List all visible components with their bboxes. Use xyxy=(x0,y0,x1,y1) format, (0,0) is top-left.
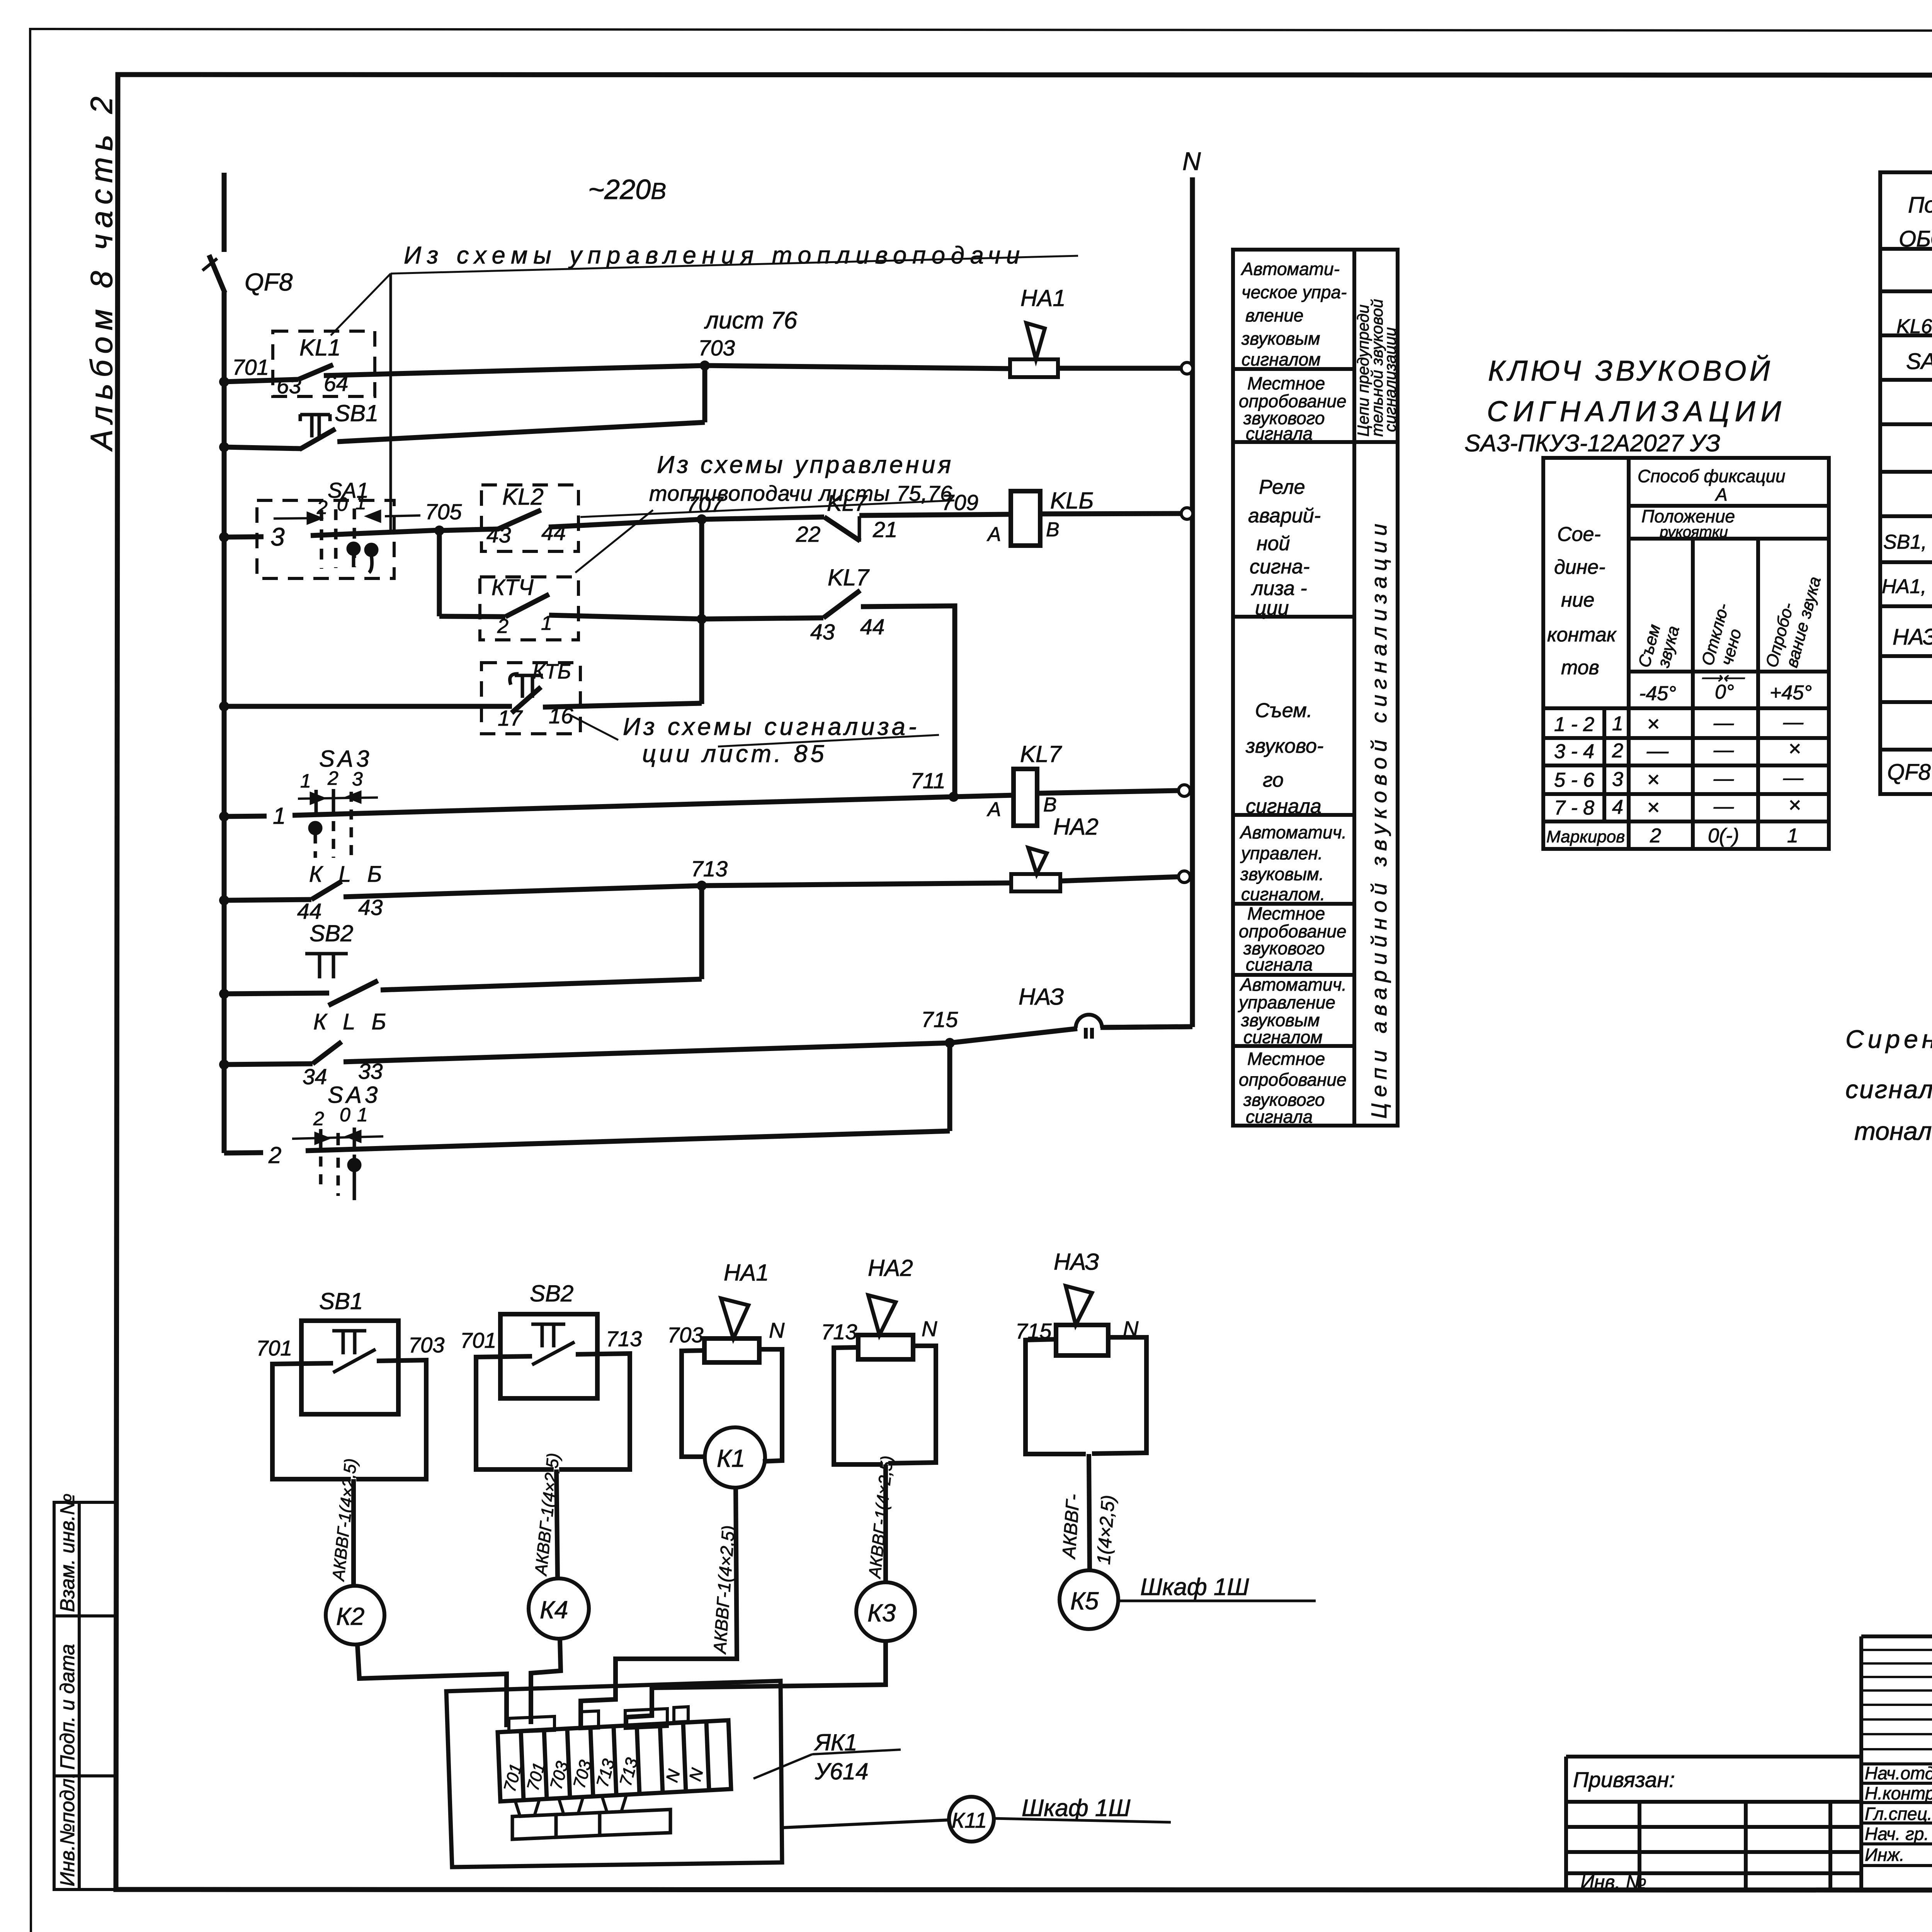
wire SA1 to node 705 xyxy=(311,530,439,536)
svg-text:3: 3 xyxy=(1612,768,1623,791)
svg-text:⟶⟵: ⟶⟵ xyxy=(1700,670,1745,687)
SB2 wire left xyxy=(476,1356,554,1469)
svg-text:Автоматич.: Автоматич. xyxy=(1239,975,1347,995)
svg-text:KL6, KL7: KL6, KL7 xyxy=(1896,315,1932,338)
svg-text:3: 3 xyxy=(352,768,363,790)
svg-text:701: 701 xyxy=(256,1336,292,1360)
svg-text:Инж.: Инж. xyxy=(1865,1845,1905,1865)
svg-text:16: 16 xyxy=(549,704,573,728)
svg-text:SA3: SA3 xyxy=(319,746,372,772)
svg-text:Цепи аварийной звуковой сигнал: Цепи аварийной звуковой сигнализации xyxy=(1367,518,1391,1119)
HA2 wire left xyxy=(834,1347,883,1464)
switch SA1 dashed verticals xyxy=(321,509,354,569)
contact KL6 44-43 blade xyxy=(311,881,342,900)
contact KT4 blade xyxy=(505,594,549,617)
attachment table columns xyxy=(1639,1802,1830,1889)
svg-text:Инв.№подл.: Инв.№подл. xyxy=(56,1773,79,1886)
svg-text:К3: К3 xyxy=(867,1599,896,1627)
svg-text:34: 34 xyxy=(303,1065,327,1089)
svg-text:2: 2 xyxy=(313,1108,324,1129)
svg-text:~220B: ~220B xyxy=(588,174,666,205)
svg-text:0: 0 xyxy=(337,493,348,515)
svg-text:К1: К1 xyxy=(717,1444,745,1472)
svg-text:HA2: HA2 xyxy=(1053,814,1099,840)
svg-text:33: 33 xyxy=(358,1059,383,1084)
parts table frame xyxy=(1880,172,1932,794)
svg-text:B: B xyxy=(1043,794,1057,816)
svg-text:Нач.отд: Нач.отд xyxy=(1865,1763,1932,1783)
svg-text:управление: управление xyxy=(1238,992,1335,1012)
svg-text:КLБ: КLБ xyxy=(309,862,398,887)
svg-text:К4: К4 xyxy=(540,1596,568,1624)
K5 line to shkaf xyxy=(1118,1600,1316,1602)
wire 707 to KL7nc xyxy=(702,517,824,519)
terminal numbers rotated xyxy=(500,1755,707,1794)
switch SA1 arrows xyxy=(274,515,420,519)
svg-text:Сирены предупредительной и: Сирены предупредительной и аварийной зву… xyxy=(1845,1025,1932,1053)
signature table thin rows xyxy=(1861,1650,1932,1749)
svg-text:сигнала: сигнала xyxy=(1246,1107,1313,1127)
svg-text:21: 21 xyxy=(872,517,897,542)
svg-text:1: 1 xyxy=(273,803,286,829)
HA3 cable down xyxy=(1089,1454,1090,1571)
wire KTB branch left xyxy=(224,704,512,709)
svg-text:Шкаф 1Ш: Шкаф 1Ш xyxy=(1140,1574,1249,1600)
svg-text:44: 44 xyxy=(860,615,884,639)
svg-text:А: А xyxy=(1714,485,1728,505)
svg-text:сигналом: сигналом xyxy=(1242,349,1321,369)
svg-text:Взам. инв.№: Взам. инв.№ xyxy=(56,1493,79,1612)
svg-text:Н.контр.: Н.контр. xyxy=(1865,1783,1932,1803)
svg-text:ции лист. 85: ции лист. 85 xyxy=(642,740,827,767)
svg-text:НА2: НА2 xyxy=(868,1255,913,1281)
svg-text:Гл.спец.: Гл.спец. xyxy=(1865,1804,1932,1824)
contact KTB blade xyxy=(512,687,541,713)
N bus corner to HA3 xyxy=(1100,1027,1192,1027)
kabel K2 circle xyxy=(326,1586,384,1645)
wire to node 713 xyxy=(344,886,702,897)
svg-text:лиза -: лиза - xyxy=(1251,577,1307,600)
svg-text:КLБ: КLБ xyxy=(313,1009,402,1034)
switch SA3-2 arrowheads xyxy=(316,1132,360,1143)
function table frame xyxy=(1233,250,1398,1126)
svg-text:—: — xyxy=(1783,711,1804,733)
svg-text:SB2: SB2 xyxy=(530,1281,573,1306)
switch SA3-2 arrows xyxy=(292,1136,383,1139)
svg-text:Автомати-: Автомати- xyxy=(1240,259,1340,279)
wire 21 to 709 coil xyxy=(859,514,1011,515)
N bus connection circles xyxy=(1179,362,1193,883)
svg-text:64: 64 xyxy=(324,371,348,396)
parts table horizontals xyxy=(1880,247,1932,251)
SB2 cable down xyxy=(556,1469,558,1578)
svg-text:дине-: дине- xyxy=(1554,556,1605,578)
svg-text:тов: тов xyxy=(1561,656,1599,679)
svg-text:SB1, SB2: SB1, SB2 xyxy=(1883,531,1932,553)
svg-text:KLБ: KLБ xyxy=(1050,488,1094,514)
SB2 actuator xyxy=(531,1324,565,1347)
N circle HA2 xyxy=(1179,871,1190,883)
SB1 contact blade xyxy=(333,1349,376,1372)
YAK1 underline xyxy=(812,1750,901,1754)
switch SA3-1 arrowheads xyxy=(311,793,360,803)
wire SB1 branch left xyxy=(224,447,301,449)
svg-text:QF8: QF8 xyxy=(1887,760,1931,785)
svg-text:го: го xyxy=(1263,769,1284,791)
contact KL2 blade xyxy=(498,510,541,529)
svg-text:HA1: HA1 xyxy=(1020,285,1066,311)
svg-text:713: 713 xyxy=(821,1320,857,1344)
svg-text:звуковым: звуковым xyxy=(1241,328,1320,349)
K11 line to shkaf xyxy=(994,1818,1171,1822)
svg-text:Привязан:: Привязан: xyxy=(1573,1767,1675,1792)
coil KL6 rect xyxy=(1011,491,1040,546)
wire 3/SA1 branch xyxy=(224,537,264,537)
YAK1 callout diagonal xyxy=(753,1754,812,1779)
svg-text:Автоматич.: Автоматич. xyxy=(1239,822,1347,842)
switch SA3-1 arrows xyxy=(298,798,378,799)
clamp 1 xyxy=(515,1799,539,1816)
svg-text:B: B xyxy=(1046,519,1060,541)
SB1 wire left xyxy=(272,1363,351,1479)
svg-text:Сое-: Сое- xyxy=(1557,523,1601,546)
svg-text:Альбом 8 часть 2: Альбом 8 часть 2 xyxy=(84,90,119,452)
relay KL2 dashed box xyxy=(481,485,578,551)
node SB2 xyxy=(219,989,229,999)
K3 wire to terminal N xyxy=(626,1641,886,1725)
svg-text:715: 715 xyxy=(921,1007,958,1032)
contact KL1 blade xyxy=(298,365,333,379)
svg-text:703: 703 xyxy=(698,336,735,361)
svg-text:сигнала: сигнала xyxy=(1246,954,1313,975)
svg-text:0(-): 0(-) xyxy=(1708,825,1739,847)
svg-text:7 - 8: 7 - 8 xyxy=(1554,797,1594,819)
svg-text:ние: ние xyxy=(1561,589,1594,611)
svg-text:Местное: Местное xyxy=(1247,1049,1325,1069)
svg-text:Маркиров: Маркиров xyxy=(1546,827,1625,846)
contact KL7 22-21 stop tick xyxy=(858,516,861,542)
svg-text:3 - 4: 3 - 4 xyxy=(1554,740,1594,763)
svg-text:1: 1 xyxy=(357,1104,368,1126)
SB1 wire right xyxy=(356,1360,426,1479)
HA2 cable down xyxy=(883,1464,888,1583)
svg-text:К5: К5 xyxy=(1070,1587,1099,1615)
callout 1 из схемы управления лист 76 xyxy=(331,242,1078,532)
callout 3 из схемы сигнализации лист 85 xyxy=(571,713,939,767)
svg-text:К11: К11 xyxy=(952,1808,987,1832)
svg-text:44: 44 xyxy=(541,520,566,545)
svg-text:Нач. гр.: Нач. гр. xyxy=(1865,1824,1929,1844)
svg-text:КЛЮЧ ЗВУКОВОЙ: КЛЮЧ ЗВУКОВОЙ xyxy=(1488,355,1773,387)
svg-text:22: 22 xyxy=(796,522,820,547)
node 1 xyxy=(219,811,229,821)
signature table frame xyxy=(1861,1636,1932,1889)
svg-text:КТЧ: КТЧ xyxy=(492,575,534,600)
svg-text:KL7: KL7 xyxy=(828,565,870,590)
svg-text:17: 17 xyxy=(498,706,523,731)
svg-text:контак: контак xyxy=(1547,624,1617,646)
svg-text:ной: ной xyxy=(1257,532,1290,555)
svg-text:тональность.: тональность. xyxy=(1854,1117,1932,1145)
svg-text:4: 4 xyxy=(1612,796,1623,818)
wire 705 to KL2 xyxy=(439,529,499,531)
wire HA1 to N xyxy=(1058,366,1182,371)
svg-text:A: A xyxy=(986,798,1001,821)
kabel K1 circle xyxy=(705,1427,765,1488)
svg-text:—: — xyxy=(1646,738,1669,763)
svg-text:SA3: SA3 xyxy=(328,1082,381,1108)
siren HA1 xyxy=(1010,323,1058,377)
svg-text:звуковым.: звуковым. xyxy=(1240,864,1324,884)
switch SA1 arrowheads xyxy=(308,512,379,522)
wire HA3 to N corner xyxy=(1100,1027,1192,1027)
junction dots xyxy=(219,361,959,1070)
clamp 3 xyxy=(602,1795,626,1812)
svg-text:лист 76: лист 76 xyxy=(704,307,798,334)
node 715 xyxy=(945,1038,955,1048)
K4 wire to terminal 701b xyxy=(531,1639,561,1724)
attachment table rows xyxy=(1566,1827,1861,1873)
jumper box 713 xyxy=(625,1709,667,1728)
wire SA3 to node 711 xyxy=(293,797,954,815)
svg-text:СИГНАЛИЗАЦИИ: СИГНАЛИЗАЦИИ xyxy=(1487,395,1787,427)
wire vertical 713 down xyxy=(699,886,704,979)
schematic labels xyxy=(232,147,1201,1168)
pushbutton SB1 actuator xyxy=(300,414,330,437)
clamp box 2 xyxy=(556,1813,600,1837)
svg-text:713: 713 xyxy=(691,857,728,881)
svg-text:рукоятки: рукоятки xyxy=(1659,524,1728,541)
key table horizontals xyxy=(1629,504,1829,508)
N bus vertical xyxy=(1190,177,1195,1027)
svg-text:2: 2 xyxy=(1612,740,1623,762)
wire KL6 44-43 branch xyxy=(224,900,311,900)
svg-text:сигна-: сигна- xyxy=(1250,556,1310,578)
wire junction to KL7no xyxy=(702,618,823,619)
N circle KL6 coil xyxy=(1181,508,1193,519)
jumper box 701 xyxy=(509,1716,554,1732)
callout 2 из схемы управления листы 75,76 xyxy=(575,451,954,573)
svg-text:опробование: опробование xyxy=(1239,1070,1347,1090)
coil KL7 rect xyxy=(1014,769,1037,826)
switch SA3-1 dashed third xyxy=(333,792,351,858)
wire 44 corner xyxy=(861,606,955,797)
signature table name rows xyxy=(1861,1764,1932,1866)
wire vertical 707 down to KTB xyxy=(699,519,704,704)
svg-text:Реле: Реле xyxy=(1259,476,1305,498)
clamp box 3 xyxy=(600,1810,670,1835)
svg-text:711: 711 xyxy=(910,769,946,793)
svg-text:Шкаф 1Ш: Шкаф 1Ш xyxy=(1022,1795,1131,1821)
svg-text:1: 1 xyxy=(1787,825,1798,847)
svg-text:SB2: SB2 xyxy=(310,920,353,946)
clamp 2 xyxy=(559,1797,583,1815)
pushbutton SB1 blade xyxy=(299,429,335,449)
wire KL6 34-33 branch xyxy=(224,1064,313,1065)
HA3 horn xyxy=(1066,1286,1092,1325)
attachment table frame xyxy=(1566,1757,1861,1889)
relay KL1 dashed box xyxy=(273,331,375,396)
svg-text:N: N xyxy=(1182,147,1201,175)
svg-text:сигнализации: сигнализации xyxy=(1381,327,1399,432)
svg-text:715: 715 xyxy=(1015,1319,1052,1343)
pushbutton SB2 blade xyxy=(328,981,378,1005)
HA1 horn xyxy=(721,1298,748,1338)
svg-text:НАЗ: НАЗ xyxy=(1019,984,1064,1010)
HA2 wire right xyxy=(888,1346,936,1463)
svg-text:×: × xyxy=(1788,793,1801,817)
svg-text:705: 705 xyxy=(425,500,462,524)
SB1 actuator xyxy=(332,1331,366,1354)
siren HA2 xyxy=(1011,848,1060,891)
svg-text:НАЗ: НАЗ xyxy=(1893,624,1932,650)
node KL6-44 xyxy=(219,895,229,905)
contact KL6 34-33 blade xyxy=(313,1042,342,1064)
svg-text:SB1: SB1 xyxy=(319,1288,363,1314)
svg-text:×: × xyxy=(1647,711,1660,736)
SB2 contact blade xyxy=(532,1342,575,1365)
K circle labels xyxy=(336,1444,1099,1832)
pushbutton SB2 actuator xyxy=(305,954,348,978)
wire KTB right xyxy=(543,703,702,707)
key table frame xyxy=(1543,458,1829,849)
svg-text:2: 2 xyxy=(316,497,328,518)
svg-text:1: 1 xyxy=(1612,713,1623,735)
svg-text:5 - 6: 5 - 6 xyxy=(1554,769,1594,791)
svg-text:сигналом: сигналом xyxy=(1243,1027,1323,1047)
svg-text:ОБОЗН.: ОБОЗН. xyxy=(1899,226,1932,252)
HA1 wire left xyxy=(682,1350,706,1457)
K1 cable to terminal 703 xyxy=(581,1488,737,1726)
svg-text:Подп. и дата: Подп. и дата xyxy=(56,1644,79,1770)
svg-text:QF8: QF8 xyxy=(245,268,293,296)
node 703 xyxy=(700,361,710,371)
svg-text:703: 703 xyxy=(667,1323,703,1347)
svg-text:—: — xyxy=(1713,795,1734,818)
svg-text:KL2: KL2 xyxy=(502,484,544,510)
wire SB1 branch right xyxy=(337,422,705,442)
svg-text:НА1: НА1 xyxy=(724,1260,769,1286)
node 711 xyxy=(949,792,959,802)
svg-text:×: × xyxy=(1788,736,1801,760)
svg-text:KL7: KL7 xyxy=(1020,741,1062,767)
HA1 wire right xyxy=(759,1349,782,1461)
svg-text:ческое упра-: ческое упра- xyxy=(1242,282,1347,302)
svg-text:Инв. №: Инв. № xyxy=(1580,1871,1646,1893)
switch SA3-1 dot drop xyxy=(314,833,317,858)
node 701 xyxy=(219,377,229,387)
svg-text:Поз: Поз xyxy=(1908,192,1932,218)
wire 1/SA3 branch stub xyxy=(224,816,267,816)
breaker QF8 tick xyxy=(202,259,217,270)
svg-text:×: × xyxy=(1647,795,1660,819)
svg-text:КТБ: КТБ xyxy=(532,660,571,683)
svg-text:аварий-: аварий- xyxy=(1248,505,1321,527)
K11 wire from box xyxy=(782,1820,949,1828)
wire 2/SA3 branch stub xyxy=(224,1153,263,1153)
jumper box 703 xyxy=(580,1711,599,1729)
svg-text:НАЗ: НАЗ xyxy=(1054,1249,1099,1275)
wire vertical 705 down xyxy=(437,531,442,616)
key table verticals xyxy=(1627,458,1631,849)
svg-text:2: 2 xyxy=(497,615,509,638)
node KTB xyxy=(219,701,229,711)
kabel K4 circle xyxy=(529,1578,589,1639)
HA2 horn xyxy=(868,1295,896,1335)
svg-text:1: 1 xyxy=(355,492,366,514)
svg-text:Способ фиксации: Способ фиксации xyxy=(1638,466,1786,486)
wire KT4 to junction xyxy=(549,615,702,619)
switch SA3-2 dot xyxy=(349,1160,360,1170)
N circle HA1 xyxy=(1181,362,1193,374)
K2 wire to terminal 701 xyxy=(357,1645,507,1727)
svg-text:Из схемы сигнализа-: Из схемы сигнализа- xyxy=(623,713,920,740)
svg-text:сигналом.: сигналом. xyxy=(1241,884,1325,904)
clamp box 1 xyxy=(512,1815,556,1839)
node KL6-34 xyxy=(219,1060,229,1070)
breaker QF8 blade xyxy=(209,255,225,293)
svg-text:звуково-: звуково- xyxy=(1245,735,1323,757)
svg-text:43: 43 xyxy=(358,895,383,920)
kabel K11 circle xyxy=(949,1797,994,1842)
switch SA3-2 ticks xyxy=(321,1128,354,1148)
svg-text:К2: К2 xyxy=(336,1602,364,1630)
bell HA3 xyxy=(1076,1015,1102,1039)
supply bus vertical lower xyxy=(222,292,227,1153)
relay KT4 dashed box xyxy=(480,577,578,640)
svg-text:N: N xyxy=(922,1316,937,1341)
time relay KTB actuator xyxy=(510,674,543,698)
svg-text:701: 701 xyxy=(460,1328,496,1352)
svg-text:N: N xyxy=(1123,1316,1139,1341)
switch SA3-1 dot xyxy=(310,823,321,833)
svg-text:сигнализации должны быть на: сигнализации должны быть настроены на ра… xyxy=(1845,1075,1932,1104)
wire 715 to HA3 xyxy=(950,1029,1077,1043)
svg-text:2: 2 xyxy=(268,1142,281,1168)
svg-text:63: 63 xyxy=(277,374,301,398)
wire SB2 branch left xyxy=(224,993,329,994)
svg-text:Местное: Местное xyxy=(1247,903,1325,923)
contact KL7 43-44 blade xyxy=(823,590,860,618)
wire to node 715 xyxy=(344,1043,950,1062)
wire coil KL7 to N xyxy=(1037,791,1179,793)
svg-text:×: × xyxy=(1647,767,1660,791)
N circle KL7 coil xyxy=(1179,785,1190,796)
svg-text:+45°: +45° xyxy=(1770,682,1812,704)
svg-text:—: — xyxy=(1783,767,1804,789)
contact KL7 22-21 blade xyxy=(824,517,860,541)
svg-text:—: — xyxy=(1713,712,1734,734)
jumper box N xyxy=(674,1707,688,1722)
HA2 resistor xyxy=(858,1335,913,1359)
wire node 713 to HA2 xyxy=(702,883,1011,886)
svg-text:сигнала: сигнала xyxy=(1246,423,1313,444)
svg-text:SA3-ПКУЗ-12А2027 УЗ: SA3-ПКУЗ-12А2027 УЗ xyxy=(1464,430,1720,457)
svg-text:Съем.: Съем. xyxy=(1255,699,1312,722)
svg-text:У614: У614 xyxy=(815,1759,868,1784)
SB2 device box xyxy=(500,1314,597,1398)
HA3 resistor xyxy=(1056,1325,1108,1355)
svg-text:701: 701 xyxy=(232,355,269,380)
node 705 xyxy=(434,526,444,536)
switch SA3-2 solid drop xyxy=(353,1155,356,1200)
svg-text:—: — xyxy=(1713,767,1734,790)
svg-text:N: N xyxy=(769,1318,785,1342)
svg-text:вление: вление xyxy=(1245,305,1304,325)
svg-text:управлен.: управлен. xyxy=(1240,843,1323,863)
svg-text:43: 43 xyxy=(486,523,511,548)
wire KT4 branch left xyxy=(439,616,505,617)
